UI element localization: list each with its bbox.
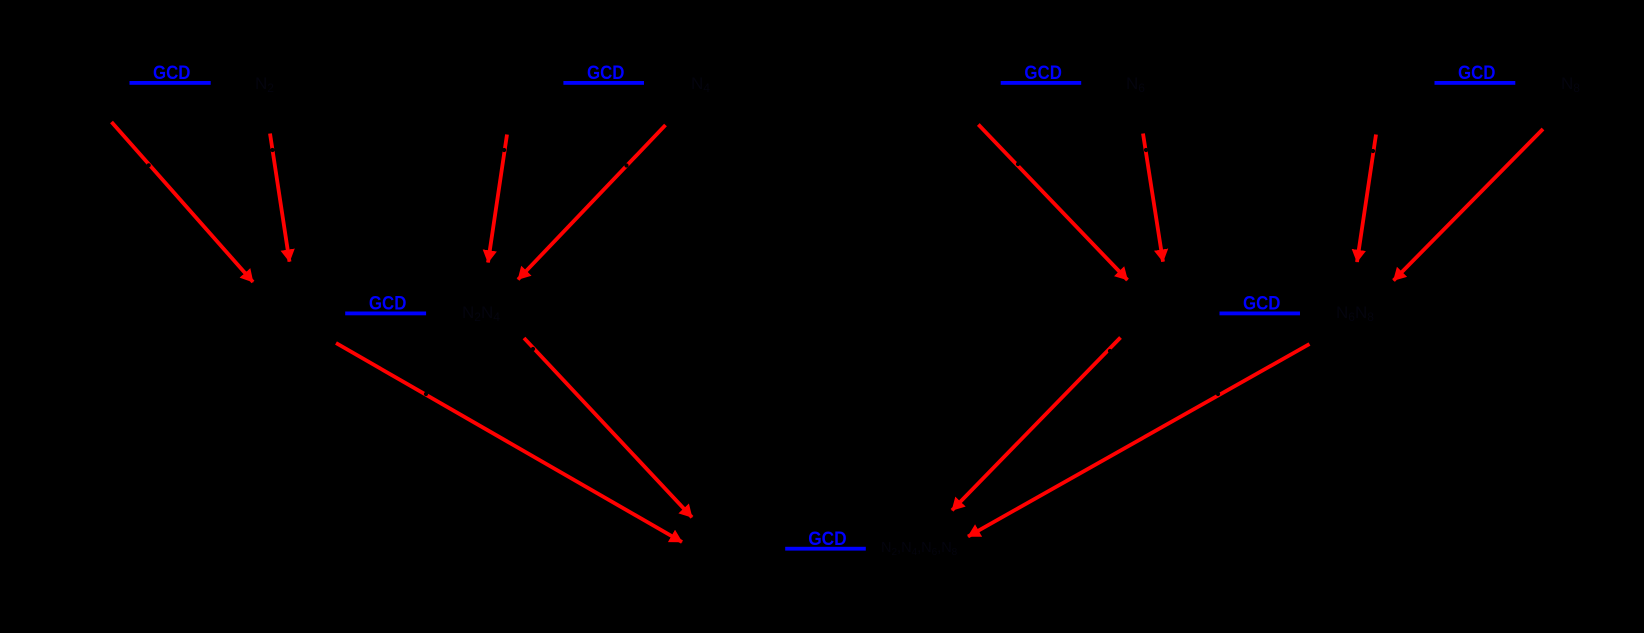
nick on arrow A — [424, 392, 428, 396]
arrow 4 : L2 arg to M1 — [518, 125, 666, 280]
arrow A : M1 to B — [336, 343, 682, 542]
arrow B : M1 to B — [524, 338, 692, 517]
svg-text:GCD: GCD — [1243, 294, 1281, 315]
nick on arrow C — [1108, 349, 1112, 353]
arrow 1 : L1 to M1 — [112, 122, 254, 282]
node GCD L1 underline — [130, 81, 211, 85]
arrow D : M2 to B — [968, 344, 1310, 537]
svg-text:GCD: GCD — [1024, 63, 1062, 84]
arrow 5 : L3 to M2 — [978, 125, 1127, 281]
arrow 2 : L1 arg to M1 — [270, 134, 290, 262]
nick on arrow 2 — [270, 148, 274, 152]
node GCD M1 underline — [345, 312, 426, 316]
svg-text:GCD: GCD — [587, 63, 625, 84]
arrow C : M2 to B — [952, 338, 1121, 511]
node GCD B underline — [785, 547, 866, 551]
arrow 7 : L4 to M2 — [1357, 135, 1376, 263]
svg-text:GCD: GCD — [1458, 63, 1496, 84]
arrow 8 : L4 arg to M2 — [1394, 129, 1544, 281]
nick on arrow 7 — [1371, 149, 1375, 153]
arrow 6 : L3 arg to M2 — [1143, 134, 1163, 262]
nick on arrow 3 — [502, 148, 506, 152]
nick on arrow 6 — [1144, 148, 1148, 152]
nick on arrow 1 — [147, 163, 151, 167]
nick on arrow B — [531, 347, 535, 351]
arrow 3 : L2 to M1 — [488, 135, 507, 263]
node GCD M2 underline — [1220, 312, 1301, 316]
node GCD L4 underline — [1435, 81, 1516, 85]
nick on arrow 5 — [1016, 162, 1020, 166]
node GCD L3 underline — [1001, 81, 1081, 85]
svg-text:GCD: GCD — [369, 294, 407, 315]
node GCD L2 underline — [563, 81, 644, 85]
svg-text:GCD: GCD — [153, 63, 191, 84]
nick on arrow D — [1216, 392, 1220, 396]
nick on arrow 4 — [624, 163, 628, 167]
nick on arrow 8 — [1500, 161, 1504, 165]
